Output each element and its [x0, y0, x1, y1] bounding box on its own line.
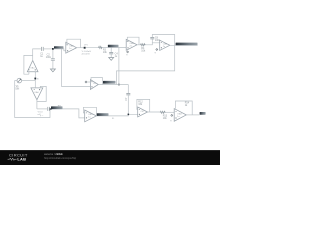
- ground below C2: [50, 69, 55, 72]
- ground below C4: [109, 58, 114, 61]
- wire OA5 output across to series cap branch: [98, 84, 128, 86]
- CircuitLab logo text: [8, 152, 28, 161]
- OA5 feedback wire loop: [91, 78, 103, 85]
- wire diamond to OA5 - input: [87, 81, 90, 83]
- net flag LPF_IN: [51, 106, 63, 109]
- svg-text:R·: R·: [112, 118, 115, 120]
- op-amp OA5 (buffer, pointing right): [90, 80, 98, 90]
- node E junction dot after C5: [50, 108, 52, 110]
- op-amp OA9 (bottom right 2, pointing right): [174, 109, 186, 122]
- diamond marker at OA5 - input: [85, 81, 87, 83]
- svg-text:mV: mV: [38, 114, 42, 116]
- op-amp OA3 (stage 2, pointing right): [126, 39, 137, 50]
- wire V1 right lead to node A: [22, 80, 36, 82]
- wire V1 left lead down and across bottom: [15, 81, 50, 118]
- wire OA1 output up to top rail: [33, 49, 41, 61]
- OA2 feedback wire loop: [66, 39, 81, 48]
- capacitor C1 (series, in top rail): [40, 47, 44, 58]
- wire OA4 output with net flag: [170, 44, 198, 46]
- wire node C to OA2 + input: [54, 49, 66, 51]
- net flag OUT at OA9 output: [200, 112, 206, 115]
- svg-text:OA2: OA2: [69, 45, 74, 48]
- capacitor C5 (series, in lower-left wire): [48, 107, 50, 111]
- capacitor C2 (shunt to ground): [46, 50, 55, 69]
- OA9 feedback wire loop: [175, 101, 192, 115]
- wire R4 to OA4 - input: [146, 43, 160, 45]
- wire OA3 output to R4: [137, 44, 140, 46]
- capacitor C4 (shunt to ground): [109, 47, 118, 58]
- simulation readout below junction: [38, 111, 44, 115]
- wire R3 to OA3: [103, 46, 127, 48]
- diamond marker near OA9 + input: [171, 114, 173, 116]
- wire node A down to OA0 + input: [34, 81, 36, 88]
- wire OA0 output junction to C5: [37, 108, 47, 110]
- watermark bar: [0, 150, 220, 165]
- net flag HPF_OUT: [108, 45, 119, 48]
- op-amp OA8 (bottom right 1, pointing right): [138, 107, 148, 117]
- wire branch from top rail down to OA5 input rail: [62, 49, 91, 87]
- OA4 feedback wire loop: [152, 35, 174, 46]
- resistor R13 (series zigzag): [160, 111, 168, 120]
- node D junction dot: [84, 47, 86, 49]
- junction dot C7 to OA8 input: [128, 114, 130, 116]
- wire big feedback loop from OA4 output down-left to OA5 area: [117, 45, 175, 84]
- simulation readout under node D: [82, 51, 92, 55]
- op-amp OA0 (pointing down, left column): [31, 88, 43, 100]
- marks below OA3 + input: [126, 51, 128, 56]
- OA7 feedback wire loop: [83, 107, 96, 116]
- wire long branch from top rail down to OA5 output junction: [118, 47, 120, 84]
- net flag LPF1_OUT at OA7 output: [97, 113, 109, 116]
- svg-text:LAB: LAB: [17, 157, 26, 162]
- OA3 feedback wire loop: [126, 37, 139, 45]
- net flag BPF_OUTPUT at OA4 output: [176, 43, 198, 46]
- svg-text:asteria / rktkk: asteria / rktkk: [44, 152, 63, 156]
- svg-text:http://circuitlab.com/cpxv5qr: http://circuitlab.com/cpxv5qr: [44, 156, 76, 160]
- node C junction dot: [52, 48, 54, 50]
- capacitor C8 (in OA4 feedback loop): [150, 36, 161, 43]
- op-amp OA1 (unity buffer, pointing up): [27, 61, 38, 75]
- capacitor C7 (series, vertical branch): [125, 85, 130, 115]
- resistor R14 label (in OA9 feedback): [185, 102, 190, 107]
- net flag HPF_IN: [54, 46, 64, 49]
- resistor R3 (series zigzag): [98, 46, 107, 54]
- svg-text:OA1: OA1: [30, 67, 35, 70]
- OA1 feedback wire loop: [24, 55, 33, 74]
- net flag BUF_OUT at OA5 output: [103, 81, 116, 84]
- wire OA9 output: [186, 114, 199, 116]
- OA8 feedback wire loop: [137, 99, 150, 112]
- svg-text:100n: 100n: [46, 56, 52, 59]
- wire OA7 output across: [96, 114, 137, 116]
- node A junction dot: [34, 78, 36, 80]
- wire node A riser to OA1 + input: [34, 72, 36, 81]
- op-amp OA2 (stage 1, pointing right): [66, 42, 77, 53]
- wire OA0 output down to junction: [36, 100, 38, 109]
- voltage source V1: [15, 78, 21, 90]
- svg-text:OA6: OA6: [34, 91, 39, 94]
- wire C1 to node C: [44, 48, 53, 50]
- wire R13 to OA9 - input: [166, 111, 175, 113]
- marks below OA4 + input: [155, 49, 158, 54]
- OA0 feedback wire loop (right side): [37, 86, 46, 101]
- wire OA8 output to R13: [148, 111, 160, 113]
- resistor R12 label (in OA8 feedback): [138, 100, 143, 105]
- op-amp OA7 (bottom middle, pointing right): [85, 110, 97, 122]
- svg-text:SIN: SIN: [15, 87, 19, 90]
- wire C5 to OA6 input jog: [50, 109, 85, 118]
- resistor R4 (series zigzag): [140, 44, 146, 53]
- junction dot at rail meeting: [118, 84, 120, 86]
- wire OA2 output to node D: [77, 47, 85, 49]
- svg-text:∆:0.0mV: ∆:0.0mV: [82, 53, 91, 56]
- op-amp OA4 (stage 3, pointing right): [160, 40, 170, 50]
- wire node D to R3: [86, 46, 99, 48]
